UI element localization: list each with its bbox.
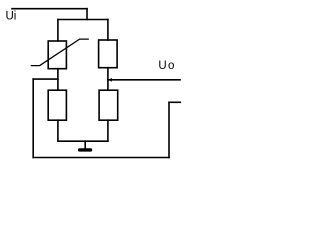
- resistor R4: [99, 90, 118, 120]
- svg-text:Uo: Uo: [158, 60, 175, 72]
- node B junction dot: [109, 78, 112, 82]
- wire bottom rail: [58, 140, 108, 142]
- wire variable-arrow diagonal through R1: [31, 39, 88, 66]
- wire ground stub: [84, 141, 86, 148]
- resistor R1 (variable): [48, 41, 66, 69]
- resistor R2: [99, 40, 118, 68]
- wire Uo lower terminal: [169, 101, 180, 103]
- ground: [78, 148, 92, 151]
- resistor R3: [48, 90, 66, 120]
- node A left output tap: [33, 78, 58, 80]
- wire left loop down: [32, 79, 34, 157]
- svg-text:Ui: Ui: [6, 11, 17, 23]
- wire top rail: [58, 19, 108, 21]
- wire right branch lower: [107, 120, 109, 141]
- wire left branch upper: [57, 20, 59, 42]
- wire right branch upper: [107, 20, 109, 41]
- wire right branch middle: [107, 68, 109, 91]
- wire bottom long: [33, 157, 169, 159]
- wire Uo upper terminal: [108, 79, 180, 81]
- wire Ui top horizontal: [12, 8, 87, 10]
- wire Ui drop to top rail: [86, 9, 88, 20]
- wire left branch middle: [57, 69, 59, 91]
- wire left branch lower: [57, 120, 59, 141]
- wire right riser: [168, 102, 170, 157]
